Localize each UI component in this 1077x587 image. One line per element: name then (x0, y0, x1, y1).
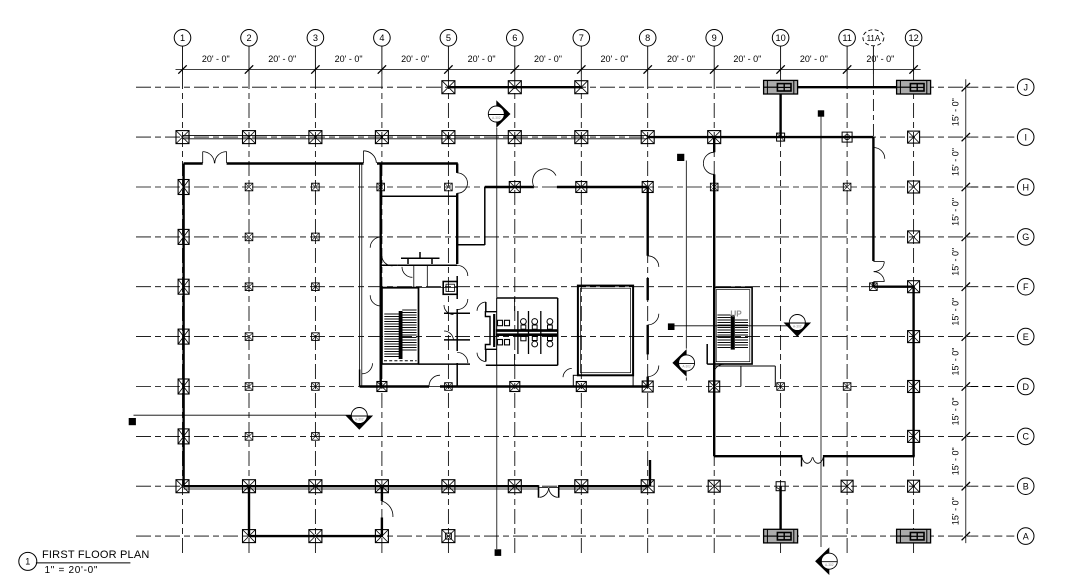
section line at x=686 vertical (685, 161, 687, 381)
grid line 11A (vertical) (872, 46, 874, 137)
wall x=485 row H to y=245 (457, 187, 485, 245)
column I-12 (908, 131, 920, 143)
section line end square left y=326 (668, 323, 675, 330)
grid bubble 7 (573, 30, 590, 47)
wall col 9 from row I down to row D with door opening (713, 137, 715, 386)
wall col 12 from row F down to wing south wall (912, 287, 914, 457)
svg-text:12: 12 (908, 33, 918, 43)
wall below core rooms (381, 287, 419, 289)
wall row J from col 10 to col 12 (781, 86, 914, 88)
grid bubble 5 (440, 30, 457, 47)
svg-text:D: D (1022, 382, 1029, 392)
closet wall west of stair 2 (707, 344, 714, 364)
south wall row B col 1 to col 8 with door opening (184, 486, 648, 489)
grid bubble 8 (639, 30, 656, 47)
grid line 7 (vertical) (580, 46, 582, 554)
grid line 6 (vertical) (514, 46, 516, 554)
restroom entry doors (477, 302, 486, 362)
door on bay east wall (382, 501, 393, 517)
bay east wall col 4 with door (381, 486, 383, 536)
wall 11A stub and row F to col 12 (873, 282, 913, 287)
section line at y=326 horizontal (674, 325, 789, 327)
corridor double wall x=360 (360, 164, 362, 387)
grid bubble 11 (839, 30, 856, 47)
svg-text:20' - 0": 20' - 0" (202, 54, 230, 64)
svg-text:8: 8 (645, 33, 650, 43)
section line at x=497 vertical (496, 128, 498, 549)
grid line C (horizontal) (136, 435, 1017, 437)
gray column A-12 (897, 529, 931, 543)
grid line B (horizontal) (136, 485, 1017, 487)
grid line 5 (vertical) (447, 46, 449, 554)
grid bubble B (1017, 478, 1034, 495)
core east wall x=457 with door openings (456, 164, 458, 387)
door in core lower room (402, 267, 412, 277)
right dimension line with tick marks (962, 79, 970, 543)
grid bubble 10 (772, 30, 789, 47)
vestibule below stair 2 (715, 366, 776, 386)
door on row D wall (429, 375, 440, 386)
svg-text:20' - 0": 20' - 0" (534, 54, 562, 64)
columns row F (178, 279, 920, 294)
svg-text:2: 2 (246, 33, 251, 43)
svg-text:A-302: A-302 (793, 324, 802, 328)
grid bubble F (1017, 278, 1034, 295)
vestibule below shaft room (573, 375, 633, 386)
section line end square bottom x=497 (495, 549, 502, 556)
wing south wall row with door opening (714, 455, 915, 457)
grid bubble 9 (706, 30, 723, 47)
wall row I heavy col 8 to col 11A (648, 136, 874, 138)
svg-text:20' - 0": 20' - 0" (268, 54, 296, 64)
svg-text:UP: UP (730, 310, 742, 319)
columns row D (178, 379, 920, 394)
title drawing number bubble (19, 552, 37, 570)
title FIRST FLOOR PLAN (42, 549, 150, 561)
svg-text:A: A (1023, 531, 1029, 541)
svg-text:5: 5 (446, 33, 451, 43)
svg-text:A-302: A-302 (355, 417, 364, 421)
svg-text:7: 7 (579, 33, 584, 43)
svg-text:A-302: A-302 (682, 365, 691, 369)
svg-text:I: I (1024, 132, 1027, 142)
section marker pointing down at x=797 (784, 315, 812, 337)
columns row B (176, 480, 920, 493)
wall col 9 from row D to wing south wall (713, 387, 715, 457)
core west wall col 4 from north wall to row D (380, 164, 382, 387)
restroom west wall stubs (485, 302, 487, 362)
stair 1 with treads (382, 288, 419, 365)
double entry door at north wall (203, 152, 227, 164)
entry door near col 4 north wall (364, 151, 377, 163)
wall stub col 8 above row B (649, 460, 651, 486)
door below stair 2 (713, 364, 724, 375)
door into core room (382, 256, 393, 266)
title underline (36, 562, 130, 564)
svg-text:1: 1 (25, 557, 30, 567)
svg-text:20' - 0": 20' - 0" (335, 54, 363, 64)
svg-text:1: 1 (180, 33, 185, 43)
svg-text:11: 11 (842, 33, 852, 43)
svg-text:B: B (1023, 482, 1029, 492)
grid line 12 (vertical) (913, 46, 915, 554)
grid bubble 12 (905, 30, 922, 47)
grid bubble 4 (374, 30, 391, 47)
stair 2 with treads (714, 287, 752, 364)
svg-text:10: 10 (775, 33, 785, 43)
wall col 11A from row I down to door (872, 137, 874, 261)
column I-10 small (777, 133, 785, 141)
grid bubble 3 (307, 30, 324, 47)
grid bubble 1 (174, 30, 191, 47)
columns row J at 5,6,7 (442, 81, 588, 94)
grid bubble I (1017, 129, 1034, 146)
grid line 3 (vertical) (314, 46, 316, 554)
door on row H wall (533, 169, 556, 187)
grid line 4 (vertical) (381, 46, 383, 554)
svg-text:20' - 0": 20' - 0" (401, 54, 429, 64)
svg-text:20' - 0": 20' - 0" (667, 54, 695, 64)
svg-text:11A: 11A (867, 34, 881, 43)
grid line A (horizontal) (136, 535, 1017, 537)
bay west wall col 2 row B to row A (248, 486, 250, 536)
corridor cross walls (419, 288, 471, 365)
elevator lobby south wall (381, 195, 458, 197)
svg-text:1" = 20'-0": 1" = 20'-0" (45, 565, 99, 576)
wall row J from col 5 to col 7 (448, 86, 581, 88)
svg-text:20' - 0": 20' - 0" (468, 54, 496, 64)
svg-text:6: 6 (512, 33, 517, 43)
grid line H (horizontal) (136, 186, 1017, 188)
columns row E (178, 329, 920, 344)
wall col 10 from row J to row I (779, 87, 781, 137)
svg-text:H: H (1022, 182, 1029, 192)
svg-text:E: E (1023, 332, 1029, 342)
grid bubble E (1017, 328, 1034, 345)
svg-text:15' - 0": 15' - 0" (951, 148, 961, 176)
section marker pointing left mid (672, 349, 694, 377)
gray column A-10 (764, 529, 798, 543)
columns row G (178, 229, 920, 244)
svg-text:15' - 0": 15' - 0" (950, 198, 960, 226)
double door on wall 11A (873, 262, 884, 282)
svg-text:15' - 0": 15' - 0" (951, 98, 961, 126)
svg-text:20' - 0": 20' - 0" (800, 54, 828, 64)
row H wall col from x=485 to col 8 with door opening (485, 186, 648, 188)
svg-text:FIRST FLOOR PLAN: FIRST FLOOR PLAN (42, 549, 150, 561)
svg-text:20' - 0": 20' - 0" (866, 54, 894, 64)
grid bubble 11A (863, 30, 884, 46)
svg-text:4: 4 (379, 33, 384, 43)
svg-text:9: 9 (712, 33, 717, 43)
grid bubble H (1017, 179, 1034, 196)
doors on rooms west of corridor (444, 305, 454, 341)
grid line J (horizontal) (136, 86, 1017, 88)
svg-text:20' - 0": 20' - 0" (733, 54, 761, 64)
double door on wing south wall (802, 455, 824, 467)
columns row A (243, 530, 455, 543)
grid bubble A (1017, 528, 1034, 545)
grid line F (horizontal) (136, 286, 1017, 288)
grid line G (horizontal) (136, 236, 1017, 238)
east wall col 8 from row H to row D with 3 door openings (647, 187, 649, 387)
shaft room between col 7 and col 8 (578, 286, 633, 376)
svg-text:15' - 0": 15' - 0" (951, 447, 961, 475)
columns row I cols 1-9 (176, 131, 721, 144)
door on col 9 wall (703, 152, 714, 174)
grid line 1 (vertical) (182, 46, 184, 554)
grid line 10 (vertical) (780, 46, 782, 554)
core room wall y=265 (381, 264, 458, 266)
doors on col 8 wall (648, 256, 659, 377)
door at shaft room lower left (563, 368, 572, 377)
svg-text:15' - 0": 15' - 0" (950, 497, 960, 525)
svg-text:G: G (1022, 232, 1029, 242)
west wall col 1 from north wall to row B (182, 164, 184, 487)
svg-text:F: F (1023, 282, 1029, 292)
svg-text:A-302: A-302 (825, 563, 834, 567)
section line flag square x=686 (677, 154, 684, 161)
shaft box right of stair (443, 282, 457, 295)
row D wall from x=359 to col 8 with door opening (360, 370, 648, 387)
grid bubble 2 (241, 30, 258, 47)
svg-text:A-302: A-302 (492, 116, 501, 120)
svg-text:C: C (1022, 432, 1029, 442)
bay south wall row A col 2 to col 4 (249, 535, 382, 537)
double door on core east wall (457, 173, 467, 193)
core room partition (414, 265, 457, 288)
double door on row B wall (539, 485, 559, 498)
top dimension texts 20'-0" (202, 54, 895, 64)
svg-text:3: 3 (313, 33, 318, 43)
break room counter symbol (401, 252, 440, 264)
grid bubble G (1017, 229, 1034, 246)
gray column J-12 (897, 80, 931, 94)
grid line E (horizontal) (136, 336, 1017, 338)
svg-text:J: J (1023, 83, 1028, 93)
gray column J-10 (764, 80, 798, 94)
door arc top of wall 11A (873, 147, 884, 158)
column I-11 with circle (842, 132, 852, 142)
wall col 10 row B to row A (779, 486, 781, 529)
title scale 1in = 20ft (45, 565, 99, 576)
north wall of left block with door openings (184, 162, 458, 164)
svg-text:15' - 0": 15' - 0" (950, 397, 960, 425)
section marker pointing down at x=359 (346, 408, 374, 430)
grid line I (horizontal) (136, 136, 1017, 138)
wall row I double line col 1 to col 8 (183, 135, 648, 138)
grid line 11 (vertical) (846, 46, 848, 554)
stair 2 UP label (730, 310, 742, 319)
grid bubble J (1017, 79, 1034, 96)
grid bubble 6 (507, 30, 524, 47)
grid line 9 (vertical) (713, 46, 715, 554)
section line at y=415 horizontal (134, 414, 352, 416)
grid bubble C (1017, 428, 1034, 445)
grid line D (horizontal) (136, 386, 1017, 388)
wall south of stair (419, 288, 471, 365)
section line flag square top x=821 (818, 110, 824, 116)
svg-text:15' - 0": 15' - 0" (951, 348, 961, 376)
section line at x=821 vertical (820, 116, 822, 547)
restroom block with fixtures (485, 298, 557, 365)
svg-text:15' - 0": 15' - 0" (950, 298, 960, 326)
top dimension line with tick marks (176, 65, 921, 73)
doors on corridor west wall x=457 (457, 265, 468, 363)
svg-text:20' - 0": 20' - 0" (601, 54, 629, 64)
columns row H (178, 180, 920, 195)
section marker pointing left at bottom (815, 547, 837, 575)
grid bubble D (1017, 378, 1034, 395)
corridor wall x=496 and col6 partition in restroom (497, 298, 515, 365)
columns row C (178, 429, 920, 444)
section marker pointing right at top (488, 100, 510, 128)
grid line 8 (vertical) (647, 46, 649, 554)
grid line 2 (vertical) (248, 46, 250, 554)
section line end square left y=415 (129, 418, 136, 425)
svg-text:15' - 0": 15' - 0" (951, 248, 961, 276)
door at corridor bottom into stair area (362, 363, 373, 374)
doors west of core into big room (370, 237, 381, 306)
right dimension texts 15'-0" (950, 98, 960, 525)
